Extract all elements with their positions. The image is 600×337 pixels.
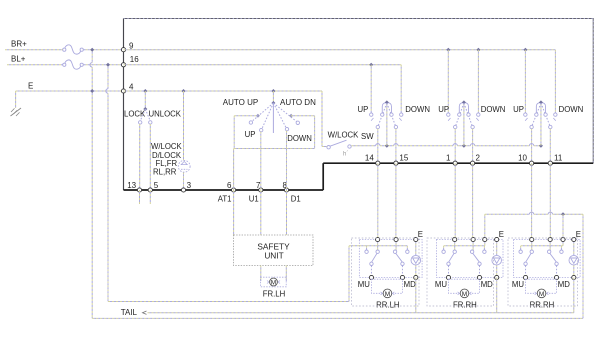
auto switch blades [252, 103, 273, 121]
wire feed sw1 left contact [370, 65, 372, 114]
wire ground distribution to RH switches [484, 214, 486, 239]
lock motor wire pin 3 [183, 91, 185, 160]
pin 7 [259, 188, 263, 192]
svg-text:TAIL: TAIL [121, 308, 138, 317]
wire bus pin down to door module x=472.6 [472, 163, 474, 239]
svg-text:DOWN: DOWN [559, 105, 584, 114]
svg-text:6: 6 [227, 181, 232, 190]
pin 1 [453, 161, 457, 165]
wire TAIL tie line [143, 311, 147, 314]
door module RR.RH (switch+motor) [513, 240, 580, 278]
svg-text:4: 4 [129, 82, 134, 91]
pin 4 [121, 89, 125, 93]
fuse F1 on BR+ line [64, 45, 81, 54]
svg-text:E: E [418, 230, 423, 239]
pin 13 [137, 188, 141, 192]
lock-unlock switch pivot [143, 107, 147, 111]
wire rocker contact to bus pin x=531.6 [531, 129, 533, 164]
svg-text:D1: D1 [291, 195, 301, 204]
svg-text:MU: MU [358, 280, 370, 289]
door outline RR.LH [352, 238, 420, 306]
svg-text:SW: SW [361, 132, 374, 141]
door outline FR.RH [427, 238, 494, 306]
wire auto frame to pin 6 [233, 149, 235, 191]
pin 14 [376, 161, 380, 165]
svg-text:RL,RR: RL,RR [153, 168, 177, 177]
svg-text:UP: UP [245, 130, 256, 139]
wire rocker contact to bus pin x=472.6 [472, 129, 474, 164]
wire feed sw2 left contact [447, 50, 449, 114]
fuse F2 on BL+ line [64, 60, 81, 69]
svg-text:M: M [385, 291, 390, 298]
svg-text:W/LOCK: W/LOCK [151, 142, 183, 151]
auto switch contact diamonds [256, 114, 260, 118]
junction E-rail pin3 wire [182, 89, 186, 93]
pin 11 [548, 161, 552, 165]
svg-text:RR.RH: RR.RH [530, 300, 555, 309]
svg-text:E: E [28, 82, 33, 91]
junction sw2 common [462, 144, 466, 148]
pin 15 [394, 161, 398, 165]
junction on BR+ at branch [90, 48, 94, 52]
wire rocker contact to bus pin x=395.9 [395, 129, 397, 164]
door module RR.LH (switch+motor) [359, 240, 422, 278]
wire internal rail from pin 9 [124, 49, 556, 51]
junction rail16 sw1 left [369, 63, 373, 67]
svg-text:W/LOCK: W/LOCK [328, 131, 360, 140]
main switch left edge (connector side) [123, 19, 125, 191]
svg-text:M: M [462, 291, 467, 298]
safety unit U1 box [234, 235, 314, 266]
junction rail9 sw2 right [476, 48, 480, 52]
junction on E wire at branch [90, 89, 94, 93]
wire rocker contact to bus pin x=550.3 [549, 129, 551, 164]
svg-text:15: 15 [399, 153, 408, 162]
junction E-rail auto switch [271, 89, 275, 93]
pin 5 [148, 188, 152, 192]
wire rear-left feed run to RR.LH switch [108, 301, 349, 303]
svg-text:5: 5 [154, 181, 159, 190]
wire pin 7 to safety unit [260, 190, 262, 235]
svg-text:16: 16 [130, 55, 139, 64]
pin 16 [121, 63, 125, 67]
auto switch wire frame [234, 115, 258, 117]
svg-text:DOWN: DOWN [287, 134, 312, 143]
svg-text:14: 14 [365, 153, 374, 162]
pin 5 stub [149, 190, 151, 204]
wire bus pin down to door module x=455.2 [454, 163, 456, 239]
wire branch from BR+ down to ground rail [91, 50, 93, 63]
svg-text:11: 11 [554, 153, 563, 162]
wire lock contact to pin 13 [139, 124, 141, 190]
wire BR+ feed [5, 49, 64, 51]
wire w/lock common run [352, 145, 376, 147]
svg-text:13: 13 [127, 181, 136, 190]
wire down contact to pin 8 [286, 131, 288, 190]
svg-text:UP: UP [438, 105, 449, 114]
pin 9 [121, 48, 125, 52]
power window switch FR (rocker) [386, 104, 388, 146]
lock-unlock switch blades [140, 109, 145, 121]
svg-text:UP: UP [357, 105, 368, 114]
main power window switch outline (top and right edges) [124, 19, 594, 164]
main switch upper connector bus (pins 14-11) [323, 162, 593, 164]
svg-text:10: 10 [518, 153, 527, 162]
svg-text:AUTO UP: AUTO UP [223, 98, 258, 107]
wire internal rail from pin 16 [124, 64, 402, 66]
wire unlock contact to pin 5 [149, 124, 151, 190]
svg-text:U1: U1 [249, 195, 259, 204]
power window switch RL (rocker) [463, 104, 465, 146]
svg-text:MU: MU [435, 280, 447, 289]
ground symbol [15, 91, 17, 108]
svg-text:BL+: BL+ [11, 55, 26, 64]
door lock motor [178, 160, 190, 172]
wire internal rail from pin 4 [124, 90, 323, 92]
svg-text:M: M [539, 291, 544, 298]
svg-text:1: 1 [446, 153, 451, 162]
svg-text:LOCK: LOCK [124, 110, 146, 119]
svg-text:MD: MD [558, 280, 570, 289]
lock-unlock switch feed [144, 91, 146, 109]
junction sw3 common [539, 144, 543, 148]
junction rail9 sw2 left [446, 48, 450, 52]
auto switch pivot [271, 101, 275, 105]
svg-text:E: E [499, 230, 504, 239]
wire E feed [16, 90, 124, 92]
svg-text:MD: MD [481, 280, 493, 289]
wire bus pin down to door module x=377.8 [377, 163, 379, 239]
svg-text:h´: h´ [343, 152, 348, 158]
svg-text:9: 9 [129, 41, 134, 50]
pin 2 [471, 161, 475, 165]
junction sw1 common [385, 144, 389, 148]
door outline RR.RH [508, 238, 578, 306]
pin 3 [181, 188, 185, 192]
motor FR.LH [270, 278, 278, 286]
pin 6 [232, 188, 236, 192]
wire bus pin down to door module x=550.3 [549, 163, 551, 239]
junction on BL+ at branch [106, 63, 110, 67]
wire bottom ground rail [92, 317, 583, 319]
svg-text:UNIT: UNIT [264, 251, 283, 261]
svg-text:FR.LH: FR.LH [263, 290, 286, 299]
power window switch RR (rocker) [540, 104, 542, 146]
pin 8 [284, 188, 288, 192]
auto switch feed [272, 91, 274, 103]
wire rocker contact to bus pin x=377.8 [377, 129, 379, 164]
wire pin 8 to safety unit [286, 190, 288, 235]
svg-text:7: 7 [256, 181, 261, 190]
wire up contact to pin 7 [260, 132, 262, 190]
wire bus pin down to door module x=395.9 [395, 163, 397, 239]
junction rail9 sw3 left [523, 48, 527, 52]
wire feed sw3 left contact [524, 50, 526, 114]
svg-text:DOWN: DOWN [405, 105, 430, 114]
window lock switch [327, 146, 330, 149]
svg-text:MU: MU [512, 280, 524, 289]
svg-text:2: 2 [476, 153, 481, 162]
door module FR.RH (switch+motor) [436, 240, 503, 278]
svg-text:AT1: AT1 [218, 195, 232, 204]
wire branch from BL+ down to rear-left feed [107, 65, 109, 89]
junction ground wire RR.RH [561, 212, 565, 216]
wire feed sw2 right contact [477, 50, 479, 114]
wire safety unit to FR.LH motor [260, 266, 262, 282]
junction E-rail lock switch [143, 89, 147, 93]
wire bus pin down to door module x=531.6 [531, 163, 533, 239]
svg-text:M: M [271, 279, 276, 286]
svg-text:FR.RH: FR.RH [453, 300, 477, 309]
main switch lower connector bus (pins 13-8) [124, 189, 324, 191]
pin 10 [530, 161, 534, 165]
svg-text:UP: UP [513, 105, 524, 114]
wire rocker contact to bus pin x=455.2 [454, 129, 456, 164]
wire BL+ feed [7, 64, 64, 66]
svg-text:DOWN: DOWN [481, 105, 506, 114]
wire pin 6 to safety unit [233, 190, 235, 235]
main switch bus step [322, 163, 324, 190]
svg-text:AUTO DN: AUTO DN [280, 98, 316, 107]
svg-text:MD: MD [404, 280, 416, 289]
wire ground drop RR.RH [562, 214, 564, 239]
svg-text:BR+: BR+ [11, 40, 27, 49]
motor FR.LH box [260, 277, 286, 287]
svg-text:3: 3 [187, 181, 192, 190]
svg-text:RR.LH: RR.LH [376, 300, 399, 309]
pin 13 stub [139, 190, 141, 204]
svg-text:UNLOCK: UNLOCK [149, 110, 182, 119]
